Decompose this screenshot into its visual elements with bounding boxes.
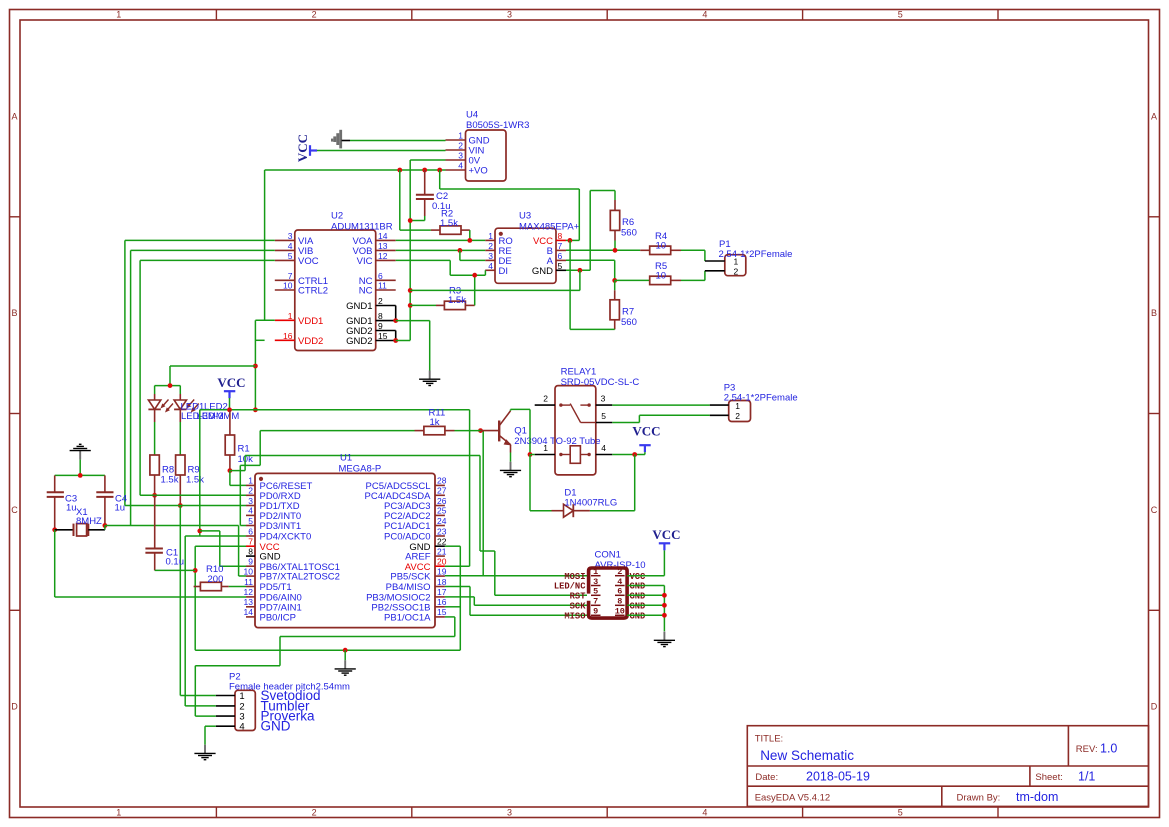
U1 pin 9 PB6/XTAL1TOSC1 [246,565,255,567]
ground below U1 [344,660,346,669]
U2 pin 13 VOB [376,249,396,251]
svg-text:5: 5 [601,411,606,421]
LED1 emission arrows [162,400,168,407]
wire ground to U4 GND [350,140,446,142]
LED2 emission arrows [188,400,194,407]
CON1 pin 1 [591,575,601,577]
wire PD1 row [125,505,246,507]
svg-text:U4: U4 [466,110,478,121]
U4 pin 2 VIN [446,149,466,151]
U1 pin 18 PB4/MISO [435,586,445,588]
svg-text:7: 7 [248,537,253,547]
svg-text:A: A [1151,111,1157,121]
svg-text:3: 3 [458,151,463,161]
RELAY1 pin 4 coil [596,454,613,456]
svg-text:PD5/T1: PD5/T1 [260,582,292,593]
U2 GND2 pins joining wire [395,331,397,341]
svg-text:11: 11 [244,577,253,587]
svg-text:6: 6 [617,587,622,597]
power module U4 B0505S-1WR3 [466,130,507,181]
U1 pin 3 PD1/TXD [246,505,255,507]
RS485 transceiver U3 MAX485EPA+ [495,228,556,283]
svg-text:4: 4 [239,722,244,733]
U4 pin 4 +VO [446,169,466,171]
svg-text:2: 2 [312,10,317,20]
U2 pin 2 GND1 [376,305,396,307]
junction relay pin4 [632,452,637,457]
svg-text:PB0/ICP: PB0/ICP [260,613,296,624]
wire U3 B to R4 [566,249,640,251]
junction C3 X1 [52,527,57,532]
svg-text:RST: RST [570,592,587,602]
resistor R7 560 [614,280,616,290]
junction A row [612,278,617,283]
svg-text:8MHZ: 8MHZ [76,516,102,527]
svg-text:22: 22 [437,537,447,547]
transistor Q1 2N3904 [481,430,500,432]
svg-text:5: 5 [558,261,563,271]
svg-text:VOC: VOC [298,256,319,267]
gray earth ground flag near U4 [339,130,342,149]
ground below P2 [204,745,206,754]
junction U3 GND branch [578,268,583,273]
svg-text:MISO: MISO [564,612,585,622]
svg-text:5: 5 [288,251,293,261]
svg-text:19: 19 [437,566,447,576]
svg-text:DI: DI [499,266,509,277]
VCC net flag CON1 [659,542,670,544]
wire R1 to U1 pin1 [229,471,231,486]
ruler tick left [10,413,21,415]
U1 pin 10 PB7/XTAL2TOSC2 [246,575,255,577]
VCC net flag near U4 [309,145,311,156]
U3 pin1 indicator dot [499,232,503,236]
U2 pin 15 GND2 [376,340,396,342]
svg-text:3: 3 [488,251,493,261]
junction RE [458,248,463,253]
junction DI R3 [472,273,477,278]
junction CON1 GND [662,603,667,608]
LED1 LED-3MM [154,386,156,394]
svg-text:4: 4 [288,241,293,251]
wire P2 pin2 [185,705,216,707]
U3 pin 4 DI [485,269,495,271]
ruler tick bottom 3 [606,807,608,818]
wire Q1 emitter to ground [510,445,512,453]
svg-text:5: 5 [593,587,598,597]
capacitor C2 0.1u [424,170,426,194]
junction U2 gnd1 [393,318,398,323]
ruler tick left [10,216,21,218]
resistor R9 1.5k [176,455,185,475]
svg-text:9: 9 [593,607,598,617]
svg-text:4: 4 [601,443,606,453]
junction +VO a [397,168,402,173]
wire PB2 pin16 join [445,606,460,608]
svg-text:1: 1 [593,567,598,577]
svg-text:Drawn By:: Drawn By: [957,793,1001,804]
svg-text:5: 5 [898,10,903,20]
svg-text:REV:: REV: [1076,744,1098,755]
RELAY1 pin 2 [535,404,555,406]
wire U2 VDD2 [255,339,264,341]
svg-text:7: 7 [558,241,563,251]
svg-text:16: 16 [283,331,293,341]
wire VDD vertical to +VO [264,170,266,320]
svg-text:2: 2 [378,296,383,306]
svg-text:VCC: VCC [295,134,310,162]
svg-text:2018-05-19: 2018-05-19 [806,770,870,784]
svg-text:GND2: GND2 [346,336,372,347]
svg-text:U3: U3 [519,210,531,221]
U2 pin 1 VDD1 [275,319,295,321]
RELAY1 switch contacts [559,403,562,406]
wire CON1 GND row [627,604,664,606]
resistor R1 10k [229,410,231,435]
U3 pin 1 RO [485,239,495,241]
svg-text:12: 12 [378,251,388,261]
svg-text:4: 4 [248,506,253,516]
svg-text:24: 24 [437,516,447,526]
wire U3 A to R5 [566,259,615,261]
svg-text:1.5k: 1.5k [161,474,179,485]
svg-text:VCC: VCC [652,527,680,542]
wire Q1 collector to relay pin1 [510,409,512,410]
svg-text:8: 8 [248,546,253,556]
svg-text:RELAY1: RELAY1 [561,366,597,377]
junction C top rail [78,473,83,478]
resistor R11 1k [415,430,424,432]
svg-text:PB4/MISO: PB4/MISO [386,582,431,593]
U1 pin 16 PB2/SSOC1B [435,606,445,608]
svg-text:D: D [1151,702,1158,712]
svg-text:2: 2 [617,567,622,577]
svg-text:1: 1 [458,131,463,141]
U2 pin 16 VDD2 [275,339,295,341]
wire VCC to U4 VIN [317,150,446,152]
CON1 pin 7 [591,604,601,606]
wire U1 GND22 down to gnd rail [445,545,460,547]
svg-text:PB1/OC1A: PB1/OC1A [384,613,431,624]
junction VDD rail1 [253,364,258,369]
U1 pin 27 PC4/ADC4SDA [435,494,445,496]
P2 pin 4 GND [216,725,235,727]
svg-text:1: 1 [735,401,740,411]
svg-text:2.54-1*2PFemale: 2.54-1*2PFemale [719,249,793,260]
svg-text:6: 6 [558,251,563,261]
svg-text:4: 4 [458,161,463,171]
svg-text:B0505S-1WR3: B0505S-1WR3 [466,120,529,131]
svg-text:1: 1 [248,476,253,486]
svg-text:3: 3 [507,808,512,818]
svg-text:A: A [11,111,17,121]
svg-text:0.1u: 0.1u [166,556,185,567]
svg-text:GND: GND [532,266,553,277]
wire relay pin3 to P3 pin1 [612,404,710,406]
wire R5 to P1 pin2 [681,279,705,281]
svg-text:1: 1 [116,808,121,818]
U1 pin 1 PC6/RESET [246,484,255,486]
wire RE to DE jog [459,250,461,260]
wire PB5 to CON1 MOSI [445,575,587,577]
ground below CON1 [663,632,665,641]
wire relay pin1 to Q1 collector node [530,454,535,456]
wire R4 to P1 pin1 [681,249,705,251]
svg-text:15: 15 [378,331,388,341]
svg-text:9: 9 [248,557,253,567]
svg-text:Date:: Date: [755,772,778,783]
wire PD0 row [140,494,246,496]
CON1 pin 3 [591,585,601,587]
ruler tick bottom 1 [215,807,217,818]
RELAY1 pin 1 coil [535,454,555,456]
svg-text:4: 4 [488,261,493,271]
svg-text:GND: GND [630,592,646,602]
junction U2 gnd2 [393,338,398,343]
resistor R8 1.5k [150,455,159,475]
ground below U2 [429,371,431,380]
wire relay pin5 to P3 pin2 [612,422,639,424]
svg-text:17: 17 [437,587,447,597]
wire U2 VIB down [131,249,275,251]
U1 pin 22 GND [435,545,445,547]
VCC net flag relay [639,444,650,446]
ruler tick right [1149,413,1160,415]
U1 pin 20 AVCC [435,565,445,567]
junction 0V net C2 row [408,288,413,293]
U2 pin 7 CTRL1 [275,279,295,281]
U3 pin 8 VCC [556,239,566,241]
resistor R10 200 [194,586,201,588]
wire U2 VIC to U3 DI [396,259,451,261]
svg-text:12: 12 [244,587,254,597]
svg-text:New Schematic: New Schematic [760,748,854,763]
junction R1 bottom [228,468,233,473]
ruler tick bottom 2 [411,807,413,818]
svg-text:21: 21 [437,546,447,556]
svg-text:16: 16 [437,597,447,607]
svg-text:B: B [11,308,17,318]
svg-text:7: 7 [288,271,293,281]
svg-text:VCC: VCC [632,424,660,439]
earth ground flag above C3 (flipped) [79,451,81,460]
digital isolator U2 ADUM1311BR [295,230,376,351]
svg-text:2: 2 [543,394,548,404]
svg-text:2: 2 [734,266,739,276]
resistor R4 10 [640,249,650,251]
P2 pin 3 Proverka [216,715,235,717]
svg-text:27: 27 [437,486,447,496]
wire U2 VOB to U3 RE [396,249,486,251]
svg-text:3: 3 [593,577,598,587]
wire PB1 pin15 to P2 pin3 [445,616,455,618]
CON1 pin 2 [615,575,625,577]
wire INT1 net from R11 [240,464,260,466]
U1 pin 12 PD6/AIN0 [246,596,255,598]
wire MOSI link to R11 node [482,431,484,576]
svg-text:3: 3 [288,231,293,241]
svg-text:8: 8 [617,597,622,607]
U2 pin 4 VIB [275,249,295,251]
svg-text:20: 20 [437,557,447,567]
svg-text:4: 4 [702,808,707,818]
svg-text:VCC: VCC [217,375,245,390]
U1 pin 6 PD4/XCKT0 [246,535,255,537]
svg-text:VIC: VIC [357,256,373,267]
RELAY1 coil [559,453,562,456]
ruler tick left [10,609,21,611]
wire CON1 VCC [627,575,664,577]
U1 pin 15 PB1/OC1A [435,616,445,618]
CON1 pin 4 [615,585,625,587]
svg-text:CTRL2: CTRL2 [298,286,328,297]
svg-text:1.5k: 1.5k [440,218,458,229]
svg-text:23: 23 [437,526,447,536]
svg-text:10: 10 [656,241,667,252]
junction VCC branch [197,529,202,534]
wire CON1 GND bus [627,585,664,587]
junction C4 X1 [103,523,108,528]
title block [747,726,1148,807]
U3 pin 2 RE [485,249,495,251]
wire VCC branch to PB6 [199,410,201,536]
svg-text:3: 3 [601,394,606,404]
junction 0V net R3 row [408,303,413,308]
U1 pin 17 PB3/MOSIOC2 [435,596,445,598]
wire U3 GND to 0V net [579,270,581,290]
svg-text:1: 1 [288,311,293,321]
svg-text:R6: R6 [622,217,634,228]
CON1 pin 9 [591,614,601,616]
svg-text:1: 1 [543,443,548,453]
svg-text:PC1/ADC1: PC1/ADC1 [384,521,430,532]
U1 pin 14 PB0/ICP [246,616,255,618]
wire U2 VIA down to U1 PD1 [125,239,275,241]
U1 pin 26 PC3/ADC3 [435,505,445,507]
wire P2 pin1 [180,695,216,697]
svg-text:15: 15 [437,607,447,617]
P2 pin 2 Tumbler [216,705,235,707]
svg-text:R7: R7 [622,307,634,318]
ruler tick top 1 [215,10,217,21]
U1 pin 13 PD7/AIN1 [246,606,255,608]
wire R1 to RST net [230,470,245,472]
svg-text:MAX485EPA+: MAX485EPA+ [519,221,580,232]
U1 pin 23 PC0/ADC0 [435,535,445,537]
svg-text:1: 1 [116,10,121,20]
U1 pin 28 PC5/ADC5SCL [435,484,445,486]
svg-text:VDD1: VDD1 [298,316,323,327]
RELAY1 pin 5 [596,422,613,424]
wire CON1 GND row [627,614,664,616]
U3 pin 5 GND [556,269,566,271]
svg-text:6: 6 [378,271,383,281]
svg-text:1u: 1u [66,503,77,514]
wire CON1 GND row [627,594,664,596]
U2 GND1 pins joining wire [395,306,397,321]
svg-text:TITLE:: TITLE: [755,734,784,745]
svg-text:GND: GND [630,602,646,612]
wire U3 GND pin5 row [566,269,590,271]
svg-text:PB7/XTAL2TOSC2: PB7/XTAL2TOSC2 [260,572,340,583]
capacitor C4 1u [104,475,106,492]
svg-text:1.0: 1.0 [1100,742,1117,756]
RELAY1 pin 3 [596,404,613,406]
junction LED top [168,383,173,388]
junction U3 VCC [568,238,573,243]
svg-text:2: 2 [312,808,317,818]
junction R8 PD0 [152,493,157,498]
svg-text:1: 1 [734,257,739,267]
junction C1 [193,568,198,573]
connector P1 2.54-1*2PFemale [725,255,746,276]
P1 pin 2 [705,270,725,272]
wire C3 bottom to U1 PD6 [54,530,56,597]
P2 pin 1 Svetodiod [216,695,235,697]
U1 pin 2 PD0/RXD [246,494,255,496]
U4 pin 3 0V [446,159,466,161]
resistor R3 1.5k [410,304,436,306]
U4 pin 1 GND [446,139,466,141]
U2 pin 11 NC [376,289,396,291]
ruler tick right [1149,609,1160,611]
ruler tick bottom 4 [802,807,804,818]
svg-text:4: 4 [702,10,707,20]
junction VDD rail2 [253,407,258,412]
svg-text:7: 7 [593,597,598,607]
junction R11 base [478,428,483,433]
svg-text:1: 1 [488,231,493,241]
connector P2 female header [235,690,255,730]
ground Q1 emitter [510,462,512,471]
U2 pin 14 VOA [376,239,396,241]
svg-text:10: 10 [656,270,667,281]
junction C2 [408,218,413,223]
VCC rail horizontal [200,409,470,411]
U2 pin 12 VIC [376,259,396,261]
svg-text:VDD2: VDD2 [298,336,323,347]
svg-text:8: 8 [378,311,383,321]
wire R7 bottom [570,328,615,330]
P3 pin 1 [710,404,729,406]
resistor R2 1.5k [399,170,401,230]
junction RO R2 [467,238,472,243]
wire relay pin4 to VCC and D1 [612,454,645,456]
wire U2 gnd2 to 0V net [396,340,411,342]
svg-text:U1: U1 [340,453,352,464]
wire PB4 to CON1 MISO [445,586,470,588]
P3 pin 2 [710,414,729,416]
svg-text:GND1: GND1 [346,301,372,312]
svg-text:14: 14 [378,231,388,241]
svg-text:GND: GND [630,582,646,592]
U1 pin 4 PD2/INT0 [246,514,255,516]
ruler tick top 2 [411,10,413,21]
svg-text:10: 10 [283,281,293,291]
svg-text:1N4007RLG: 1N4007RLG [564,497,617,508]
U1 pin 24 PC1/ADC1 [435,525,445,527]
svg-text:3: 3 [507,10,512,20]
svg-text:1u: 1u [115,503,126,514]
svg-text:2: 2 [248,486,253,496]
svg-text:560: 560 [621,227,637,238]
svg-text:10: 10 [615,607,625,617]
svg-text:5: 5 [248,516,253,526]
wire 0V [410,159,445,161]
wire U2 VDD1 [255,319,274,321]
svg-text:26: 26 [437,496,447,506]
U3 pin 3 DE [485,259,495,261]
